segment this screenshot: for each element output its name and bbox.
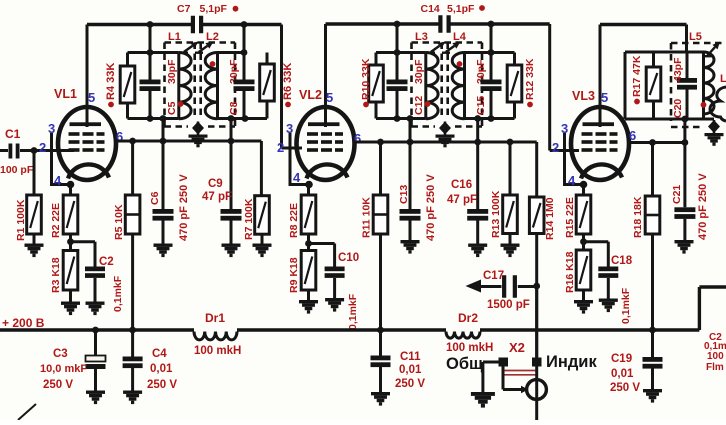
svg-text:L1: L1: [168, 31, 181, 43]
svg-text:C18: C18: [611, 255, 633, 267]
svg-text:L: L: [720, 73, 726, 85]
svg-text:C1: C1: [5, 127, 21, 141]
svg-text:4: 4: [54, 173, 62, 188]
svg-text:C7: C7: [177, 3, 191, 15]
svg-text:C16: C16: [451, 179, 472, 191]
svg-text:250 V: 250 V: [147, 379, 177, 391]
svg-text:L4: L4: [453, 31, 467, 43]
svg-text:R6 33K: R6 33K: [282, 63, 294, 100]
svg-text:R5 10K: R5 10K: [113, 204, 125, 240]
svg-text:C19: C19: [611, 353, 632, 365]
svg-text:C9: C9: [208, 178, 223, 190]
svg-text:R15 22E: R15 22E: [564, 197, 576, 238]
svg-text:100: 100: [707, 351, 724, 362]
svg-text:5: 5: [601, 90, 608, 105]
svg-text:470 pF 250 V: 470 pF 250 V: [425, 174, 437, 241]
svg-text:Общ: Общ: [446, 355, 483, 373]
svg-text:3: 3: [48, 121, 55, 136]
svg-text:C10: C10: [338, 252, 359, 264]
svg-text:R2 22E: R2 22E: [50, 203, 62, 238]
svg-text:0,1mkF: 0,1mkF: [112, 275, 124, 312]
svg-text:R16 K18: R16 K18: [564, 251, 576, 293]
svg-text:0,1mkF: 0,1mkF: [620, 287, 632, 324]
svg-text:R13 100K: R13 100K: [490, 190, 502, 238]
svg-text:47 pF: 47 pF: [202, 191, 232, 203]
svg-text:R8 22E: R8 22E: [288, 203, 300, 238]
svg-text:R18 18K: R18 18K: [632, 196, 644, 238]
svg-text:R11 10K: R11 10K: [361, 197, 373, 238]
svg-text:10,0 mkF: 10,0 mkF: [40, 363, 87, 375]
svg-text:6: 6: [629, 128, 636, 143]
svg-text:R7 100K: R7 100K: [243, 198, 255, 240]
svg-text:L2: L2: [206, 31, 219, 43]
svg-text:0,01: 0,01: [611, 368, 634, 380]
svg-text:0,01: 0,01: [399, 364, 422, 376]
svg-text:R9 K18: R9 K18: [288, 257, 300, 293]
svg-text:6: 6: [354, 131, 361, 146]
svg-text:30pF: 30pF: [166, 59, 178, 84]
svg-text:L5: L5: [689, 31, 702, 43]
svg-text:C13: C13: [398, 185, 410, 204]
svg-text:C12: C12: [413, 96, 425, 115]
svg-text:R14 1M0: R14 1M0: [544, 197, 556, 240]
svg-text:C6: C6: [149, 191, 161, 205]
svg-text:R4 33K: R4 33K: [105, 63, 117, 100]
svg-text:0,1mkF: 0,1mkF: [347, 293, 359, 330]
svg-text:5: 5: [88, 90, 95, 105]
svg-text:Dr1: Dr1: [205, 311, 225, 325]
svg-text:R17 47K: R17 47K: [631, 55, 643, 97]
svg-text:3: 3: [286, 121, 293, 136]
svg-text:+ 200 B: + 200 B: [2, 316, 45, 330]
svg-text:5,1pF: 5,1pF: [200, 3, 228, 15]
svg-text:30pF: 30pF: [413, 59, 425, 84]
svg-text:100 mkH: 100 mkH: [446, 342, 493, 354]
svg-text:R1 100K: R1 100K: [15, 199, 27, 241]
svg-text:1500 pF: 1500 pF: [487, 299, 530, 311]
svg-text:C21: C21: [671, 185, 683, 204]
svg-text:4: 4: [293, 170, 301, 185]
svg-text:47 pF: 47 pF: [447, 194, 477, 206]
svg-text:R10 33K: R10 33K: [360, 58, 372, 100]
svg-text:R3 K18: R3 K18: [50, 257, 62, 293]
svg-text:C4: C4: [152, 348, 167, 360]
svg-text:4: 4: [568, 173, 576, 188]
svg-text:470 pF 250 V: 470 pF 250 V: [697, 173, 709, 240]
svg-text:C8: C8: [228, 101, 240, 115]
svg-text:VL2: VL2: [299, 88, 322, 102]
svg-text:2: 2: [39, 140, 46, 155]
svg-text:2: 2: [552, 140, 559, 155]
svg-text:L3: L3: [415, 31, 428, 43]
svg-text:470 pF 250 V: 470 pF 250 V: [178, 174, 190, 241]
svg-text:C2: C2: [99, 256, 114, 268]
svg-text:3: 3: [561, 121, 568, 136]
svg-text:100 mkH: 100 mkH: [194, 345, 241, 357]
svg-text:C5: C5: [166, 101, 178, 115]
svg-text:100 pF: 100 pF: [0, 164, 34, 176]
svg-text:VL1: VL1: [54, 87, 77, 101]
svg-text:250 V: 250 V: [610, 382, 640, 394]
svg-text:C17: C17: [483, 270, 504, 282]
svg-text:R12 33K: R12 33K: [524, 58, 536, 100]
svg-text:250 V: 250 V: [43, 379, 73, 391]
svg-text:C11: C11: [400, 351, 421, 363]
svg-text:Индик: Индик: [546, 353, 597, 371]
svg-text:5: 5: [326, 90, 333, 105]
svg-text:C14: C14: [421, 3, 440, 15]
svg-text:C15: C15: [475, 96, 487, 115]
svg-text:C20: C20: [672, 99, 684, 118]
svg-text:Flm: Flm: [706, 362, 724, 373]
svg-text:43pF: 43pF: [672, 57, 684, 82]
svg-text:250 V: 250 V: [395, 378, 425, 390]
svg-text:5,1pF: 5,1pF: [447, 3, 475, 15]
svg-text:Dr2: Dr2: [458, 311, 478, 325]
svg-text:VL3: VL3: [572, 89, 595, 103]
svg-text:C3: C3: [53, 348, 68, 360]
svg-text:0,01: 0,01: [150, 363, 173, 375]
svg-text:2: 2: [277, 140, 284, 155]
svg-text:X2: X2: [509, 340, 525, 355]
